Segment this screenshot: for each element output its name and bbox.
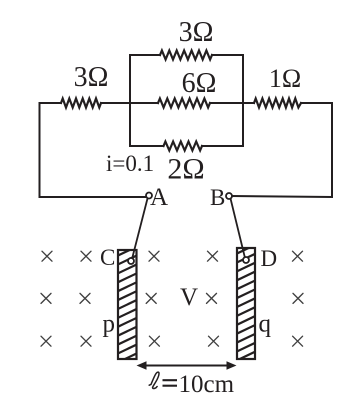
svg-text:3Ω: 3Ω <box>179 17 214 48</box>
svg-text:D: D <box>261 246 278 271</box>
svg-text:B: B <box>210 185 225 210</box>
svg-text:1Ω: 1Ω <box>269 64 301 93</box>
svg-text:A: A <box>150 184 168 211</box>
svg-text:p: p <box>103 311 116 338</box>
svg-text:V: V <box>180 284 198 311</box>
svg-text:q: q <box>259 311 272 338</box>
svg-text:2Ω: 2Ω <box>167 153 204 186</box>
svg-text:C: C <box>100 245 115 270</box>
svg-text:10cm: 10cm <box>179 371 235 398</box>
svg-text:6Ω: 6Ω <box>182 68 217 99</box>
svg-text:3Ω: 3Ω <box>74 62 109 93</box>
svg-text:i=0.1: i=0.1 <box>106 151 154 176</box>
